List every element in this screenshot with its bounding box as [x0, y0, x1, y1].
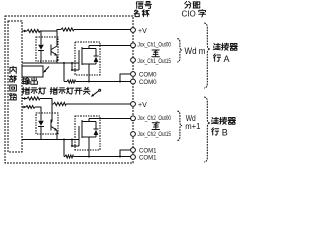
label 分配 char 分: [185, 1, 191, 8]
large brace row A: [204, 23, 210, 88]
node J3b: [71, 145, 73, 147]
svg-text:Jox_Ch2_Out15: Jox_Ch2_Out15: [138, 132, 172, 138]
body diode D2 bottom wire: [95, 62, 97, 64]
body diode D2 triangle: [94, 57, 99, 62]
arrow on W1: [24, 30, 27, 33]
terminal Out00 block2: [131, 116, 136, 121]
MOSFET Q2 box: [75, 116, 100, 150]
label 连接器B char 器: [228, 118, 235, 125]
wire W1 cont: [40, 30, 57, 32]
MOSFET Q2 drain up: [88, 118, 90, 121]
resistor R4: [27, 97, 40, 100]
svg-text:COM0: COM0: [139, 79, 157, 86]
body diode D4 bottom wire: [95, 135, 97, 137]
phototransistor emitter angle: [51, 52, 57, 56]
resistor R2: [61, 28, 74, 31]
terminal +V block1: [131, 28, 136, 33]
label 名称 char 称: [142, 10, 149, 17]
wire W0b pull-up internal feed: [22, 98, 27, 100]
svg-text:Jox_Ch2_Out00: Jox_Ch2_Out00: [138, 116, 172, 122]
COM rail 2 left: [64, 156, 65, 158]
label 指示灯开关 char 指: [50, 87, 57, 94]
terminal +V block2: [131, 102, 136, 107]
body diode D4 top wire: [95, 122, 97, 130]
label 至 block2: [152, 123, 160, 130]
LED D3 triangle: [38, 121, 44, 126]
switch lever arrowhead: [91, 94, 94, 97]
LED D1 triangle: [38, 45, 44, 50]
phototransistor collector wire: [56, 30, 58, 47]
node J5b: [119, 156, 121, 158]
MOSFET Q1 channel bar: [81, 47, 83, 65]
label 连接器A char 器: [230, 44, 237, 51]
phototransistor2 emitter angle: [51, 127, 57, 131]
switch pivot: [99, 89, 101, 91]
svg-text:COM1: COM1: [139, 148, 157, 155]
node J4: [88, 81, 90, 83]
body diode D2 top wire: [95, 49, 97, 57]
node J2b: [71, 139, 73, 141]
label 连接器A char 连: [213, 43, 220, 49]
large brace row B: [204, 97, 210, 162]
wire W3b return line: [22, 139, 79, 141]
COM rail 1 left: [64, 81, 67, 83]
wire to Out00 terminal: [89, 44, 131, 46]
wire V2b: [63, 140, 65, 157]
svg-text:Jox_Ch1_Out00: Jox_Ch1_Out00: [138, 43, 172, 49]
svg-text:Jox_Ch1_Out15: Jox_Ch1_Out15: [138, 59, 172, 65]
terminal COM1 a: [131, 148, 136, 153]
svg-text:A: A: [224, 54, 230, 64]
terminal Out15 block1: [131, 58, 136, 63]
arrow on W0b: [24, 97, 27, 100]
MOSFET Q2 source bar: [82, 136, 96, 138]
wire W2 to +V terminal: [74, 29, 131, 31]
indicator LED loop: [22, 66, 43, 77]
MOSFET Q2 gate: [78, 126, 80, 146]
resistor R6: [26, 106, 35, 109]
label 指示灯 char 示: [31, 88, 38, 94]
LED2 cathode wire: [40, 126, 42, 139]
optocoupler PC1 box: [36, 37, 58, 61]
wire W1 drive line: [22, 30, 27, 32]
body diode D4 bar: [94, 128, 99, 130]
COM bracket wire 2: [120, 150, 131, 157]
wire to Out terminal block2: [89, 117, 131, 119]
phototransistor emitter arrowhead: [54, 53, 57, 56]
label 指示灯 char 指: [22, 87, 29, 94]
phototransistor emitter wire: [56, 55, 58, 63]
MOSFET Q1 drain up: [88, 45, 90, 48]
label 至 block1: [152, 50, 160, 57]
node J4b: [88, 156, 90, 158]
label 行 rowA: [213, 54, 220, 61]
label 字: [199, 10, 206, 17]
phototransistor collector angle: [51, 46, 57, 50]
node J3: [71, 69, 73, 71]
arrow on W1b: [24, 106, 27, 109]
label 指示灯开关 char 开: [75, 88, 82, 94]
MOSFET Q2 source down: [88, 137, 90, 157]
node J2: [71, 62, 73, 64]
label 指示灯开关 char 灯: [67, 87, 74, 94]
label 行 rowB: [212, 128, 219, 135]
terminal Out15 block2: [131, 132, 136, 137]
body diode D2 bar: [94, 55, 99, 57]
label 部: [10, 75, 17, 82]
label 指示灯开关 char 示: [59, 88, 66, 94]
label 输出 char 输: [22, 78, 29, 85]
resistor R5: [54, 102, 67, 105]
label 输出 char 出: [31, 78, 38, 85]
phototransistor2 emitter arrowhead: [54, 128, 57, 131]
terminal COM0 b: [131, 79, 136, 84]
body diode D4 triangle: [94, 130, 99, 135]
terminal Out00 block1: [131, 43, 136, 48]
node J1b: [63, 139, 65, 141]
label 连接器A char 接: [222, 43, 229, 50]
label 分配 char 配: [193, 2, 200, 8]
LED2 cathode bar: [38, 125, 44, 127]
svg-text:+V: +V: [138, 28, 147, 35]
module outer frame: [5, 16, 133, 163]
label 信号 char 信: [136, 1, 143, 8]
MOSFET Q1 source down: [88, 64, 90, 82]
MOSFET Q2 drain bar: [82, 121, 96, 123]
phototransistor2 collector wire: [51, 104, 53, 122]
phototransistor2 emitter wire: [56, 130, 58, 139]
MOSFET Q1 box: [75, 42, 100, 75]
terminal COM1 b: [131, 155, 136, 160]
wire W2 pull-up feed: [57, 30, 61, 32]
internal circuit box: [8, 21, 22, 152]
wire W1b LED drive: [22, 106, 26, 108]
phototransistor2 base bar: [50, 120, 52, 131]
LED cathode wire: [40, 50, 42, 63]
LED cathode bar: [38, 49, 44, 51]
wire W3 return line: [22, 62, 79, 64]
COM bracket wire: [120, 74, 131, 82]
label 内: [10, 66, 16, 73]
MOSFET Q1 gate: [78, 50, 80, 70]
wire W0b cont: [40, 99, 52, 105]
phototransistor2 collector angle: [50, 122, 53, 123]
label 指示灯开关 char 关: [83, 87, 90, 94]
indicator arrow: [44, 67, 49, 72]
label 名称 char 名: [134, 10, 139, 17]
resistor R1: [27, 29, 40, 32]
LED anode wire: [40, 31, 42, 45]
MOSFET Q1 source bar: [82, 63, 96, 65]
wire V3b gate drop: [72, 140, 79, 147]
MOSFET Q1 drain bar: [82, 48, 96, 50]
node J1: [63, 62, 65, 64]
optocoupler PC2 box: [36, 113, 58, 134]
terminal COM0 a: [131, 72, 136, 77]
svg-text:CIO: CIO: [182, 9, 196, 18]
+V feed wire block2 right: [66, 103, 131, 105]
resistor R7: [65, 155, 74, 158]
svg-text:COM0: COM0: [139, 71, 157, 78]
MOSFET Q2 channel bar: [81, 120, 83, 138]
indicator arrowhead: [43, 70, 46, 73]
wire V3 gate drop: [72, 63, 79, 70]
label 回: [10, 85, 17, 91]
switch lever: [92, 91, 99, 97]
small brace Wd m: [177, 39, 182, 63]
svg-text:COM1: COM1: [139, 155, 157, 162]
wire V2: [63, 63, 65, 82]
COM rail 2 right: [74, 156, 131, 158]
label 信号 char 号: [145, 1, 152, 8]
resistor R3: [67, 80, 76, 83]
svg-text:+V: +V: [138, 102, 147, 109]
svg-text:m+1: m+1: [185, 122, 201, 131]
svg-text:Wd m: Wd m: [185, 46, 206, 57]
label 连接器B char 连: [211, 117, 218, 123]
label 连接器B char 接: [220, 117, 227, 124]
COM rail 1 right: [76, 81, 131, 83]
wire W1b cont: [35, 107, 41, 121]
label 指示灯 char 灯: [39, 87, 46, 94]
small brace Wd m+1: [177, 111, 182, 141]
+V feed wire block2: [52, 103, 54, 105]
phototransistor base bar: [50, 45, 52, 56]
label 路: [10, 94, 17, 100]
svg-text:B: B: [222, 128, 228, 138]
node J5: [119, 81, 121, 83]
